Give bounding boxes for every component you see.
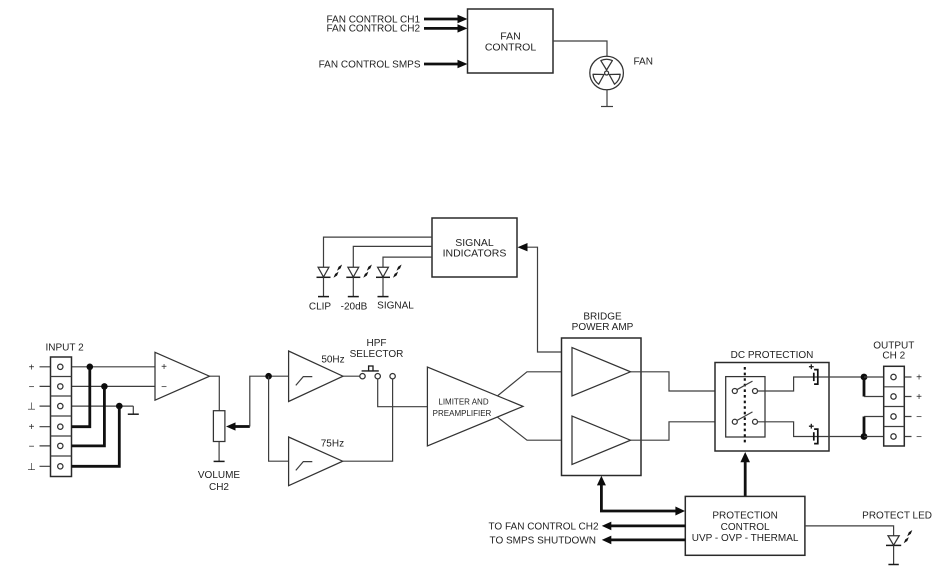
wire input row2 -: [40, 385, 156, 387]
wire relay upper to output cap: [758, 377, 864, 391]
svg-text:POWER AMP: POWER AMP: [572, 322, 634, 333]
junction dot row3: [116, 403, 123, 410]
fan ground terminal: [601, 90, 613, 107]
svg-text:UVP - OVP - THERMAL: UVP - OVP - THERMAL: [692, 533, 799, 544]
potentiometer VOLUME CH2: [213, 411, 225, 462]
fan M1: [590, 56, 624, 90]
svg-text:BRIDGE: BRIDGE: [583, 311, 622, 322]
wire relay lower to output cap: [758, 422, 864, 437]
wire output row2: [864, 396, 912, 398]
block PROTECTION CONTROL: [685, 496, 805, 555]
svg-text:⊥: ⊥: [27, 402, 36, 413]
block SIGNAL INDICATORS: [432, 218, 517, 277]
wire junction down to 75Hz filter: [269, 376, 289, 461]
wire fan control to fan: [553, 41, 607, 56]
wire protection control to protect LED: [805, 526, 894, 536]
wire output row1: [864, 376, 912, 378]
wire arrow into fan control (SMPS): [424, 60, 468, 68]
svg-text:−: −: [29, 382, 35, 393]
wire upper amp output to dc protection: [631, 372, 733, 391]
wire output row3: [864, 416, 912, 418]
wire input row4 +: [40, 426, 72, 428]
capacitor C1 (+ upper): [809, 364, 818, 384]
junction dot filter input: [265, 373, 272, 380]
svg-text:VOLUME: VOLUME: [198, 470, 241, 481]
relay contact upper: [732, 381, 757, 393]
switch HPF selector: [360, 366, 396, 379]
wire jumper row1 to row4: [72, 368, 90, 427]
LED D1 CLIP: [317, 265, 343, 297]
svg-text:SELECTOR: SELECTOR: [350, 349, 404, 360]
svg-text:HPF: HPF: [367, 338, 387, 349]
svg-text:CLIP: CLIP: [309, 301, 332, 312]
wire limiter fork upper: [498, 372, 573, 396]
amp LIMITER AND PREAMPLIFIER: [427, 367, 523, 446]
svg-text:PREAMPLIFIER: PREAMPLIFIER: [433, 409, 492, 418]
wire arrow protection control to bridge amp: [597, 476, 685, 516]
relay contact lower: [732, 412, 757, 424]
capacitor C2 (+ lower): [809, 424, 818, 444]
junction dot row2: [101, 383, 108, 390]
amp A1 upper: [572, 348, 631, 397]
filter 75Hz: [289, 437, 343, 486]
block FAN CONTROL: [468, 9, 554, 73]
svg-text:LIMITER AND: LIMITER AND: [438, 397, 488, 406]
wire jumper output - rows: [863, 417, 866, 437]
wire 50Hz output to switch: [343, 375, 360, 377]
svg-text:CONTROL: CONTROL: [721, 522, 770, 533]
svg-text:PROTECT LED: PROTECT LED: [862, 511, 932, 522]
wire limiter fork lower: [498, 417, 573, 440]
block BRIDGE POWER AMP: [562, 338, 642, 476]
wire 75Hz output to switch: [343, 379, 393, 461]
wire lower amp output to dc protection: [631, 422, 733, 440]
svg-text:−: −: [161, 382, 167, 393]
svg-text:−: −: [916, 432, 922, 443]
svg-text:+: +: [29, 422, 35, 433]
junction dot output -: [861, 433, 868, 440]
wire input row3 gnd: [40, 405, 134, 407]
wire arrow to smps shutdown: [602, 536, 686, 545]
svg-text:⊥: ⊥: [27, 462, 36, 473]
wire jumper output + rows: [863, 377, 866, 397]
svg-text:-20dB: -20dB: [341, 301, 368, 312]
svg-text:CONTROL: CONTROL: [485, 41, 536, 53]
wiper arrow volume pot: [226, 422, 250, 430]
svg-text:INDICATORS: INDICATORS: [443, 248, 507, 260]
svg-text:DC PROTECTION: DC PROTECTION: [731, 350, 814, 361]
svg-text:−: −: [29, 441, 35, 452]
svg-text:−: −: [916, 412, 922, 423]
LED D4 protect: [886, 530, 912, 565]
junction dot row1: [87, 364, 94, 371]
svg-text:+: +: [916, 373, 922, 384]
svg-text:SIGNAL: SIGNAL: [377, 301, 414, 312]
svg-text:FAN CONTROL SMPS: FAN CONTROL SMPS: [319, 59, 421, 70]
wire indicators to clip LED: [324, 237, 433, 267]
wire indicators to signal LED: [383, 257, 432, 267]
op-amp U1 input buffer: [155, 352, 210, 400]
svg-text:+: +: [916, 392, 922, 403]
relay actuator dashed line: [744, 367, 746, 445]
svg-text:CH 2: CH 2: [882, 351, 905, 362]
terminal block INPUT 2: [51, 357, 72, 477]
amp A2 lower: [572, 416, 631, 465]
LED D2 -20dB: [346, 265, 372, 297]
svg-text:75Hz: 75Hz: [321, 439, 344, 450]
svg-text:FAN: FAN: [634, 57, 653, 68]
svg-text:PROTECTION: PROTECTION: [712, 511, 778, 522]
junction dot output +: [861, 374, 868, 381]
svg-text:FAN CONTROL CH2: FAN CONTROL CH2: [326, 24, 420, 35]
wire bridge amp to signal indicators: [518, 243, 562, 352]
svg-text:CH2: CH2: [209, 482, 229, 493]
svg-text:TO SMPS SHUTDOWN: TO SMPS SHUTDOWN: [490, 535, 596, 546]
wire arrow to fan control ch2: [602, 522, 686, 531]
wire input row5 -: [40, 445, 72, 447]
LED D3 SIGNAL: [376, 265, 402, 297]
wire input row1 +: [40, 366, 156, 368]
wire op-amp output to volume pot: [210, 376, 220, 411]
wire jumper row3 to row6: [72, 407, 120, 466]
wire arrow into fan control (CH2): [424, 24, 468, 32]
wire switch pole to limiter: [378, 379, 428, 407]
svg-text:+: +: [29, 362, 35, 373]
svg-text:TO FAN CONTROL CH2: TO FAN CONTROL CH2: [488, 521, 598, 532]
wire arrow into fan control (CH1): [424, 15, 468, 23]
relay K1 box: [726, 377, 765, 437]
wire output row4: [864, 436, 912, 438]
block DC PROTECTION: [715, 363, 829, 452]
svg-text:INPUT 2: INPUT 2: [46, 342, 85, 353]
ground symbol input: [128, 406, 139, 414]
svg-text:+: +: [161, 362, 167, 373]
wire jumper row2 to row5: [72, 388, 105, 446]
terminal block OUTPUT CH2: [884, 366, 905, 446]
wire wiper to 50Hz filter: [250, 376, 289, 426]
svg-text:50Hz: 50Hz: [321, 354, 344, 365]
filter 50Hz: [289, 351, 343, 402]
wire input row6 gnd: [40, 465, 72, 467]
wire indicators to -20dB LED: [353, 246, 432, 267]
wire arrow protection control to dc protection: [740, 452, 750, 496]
